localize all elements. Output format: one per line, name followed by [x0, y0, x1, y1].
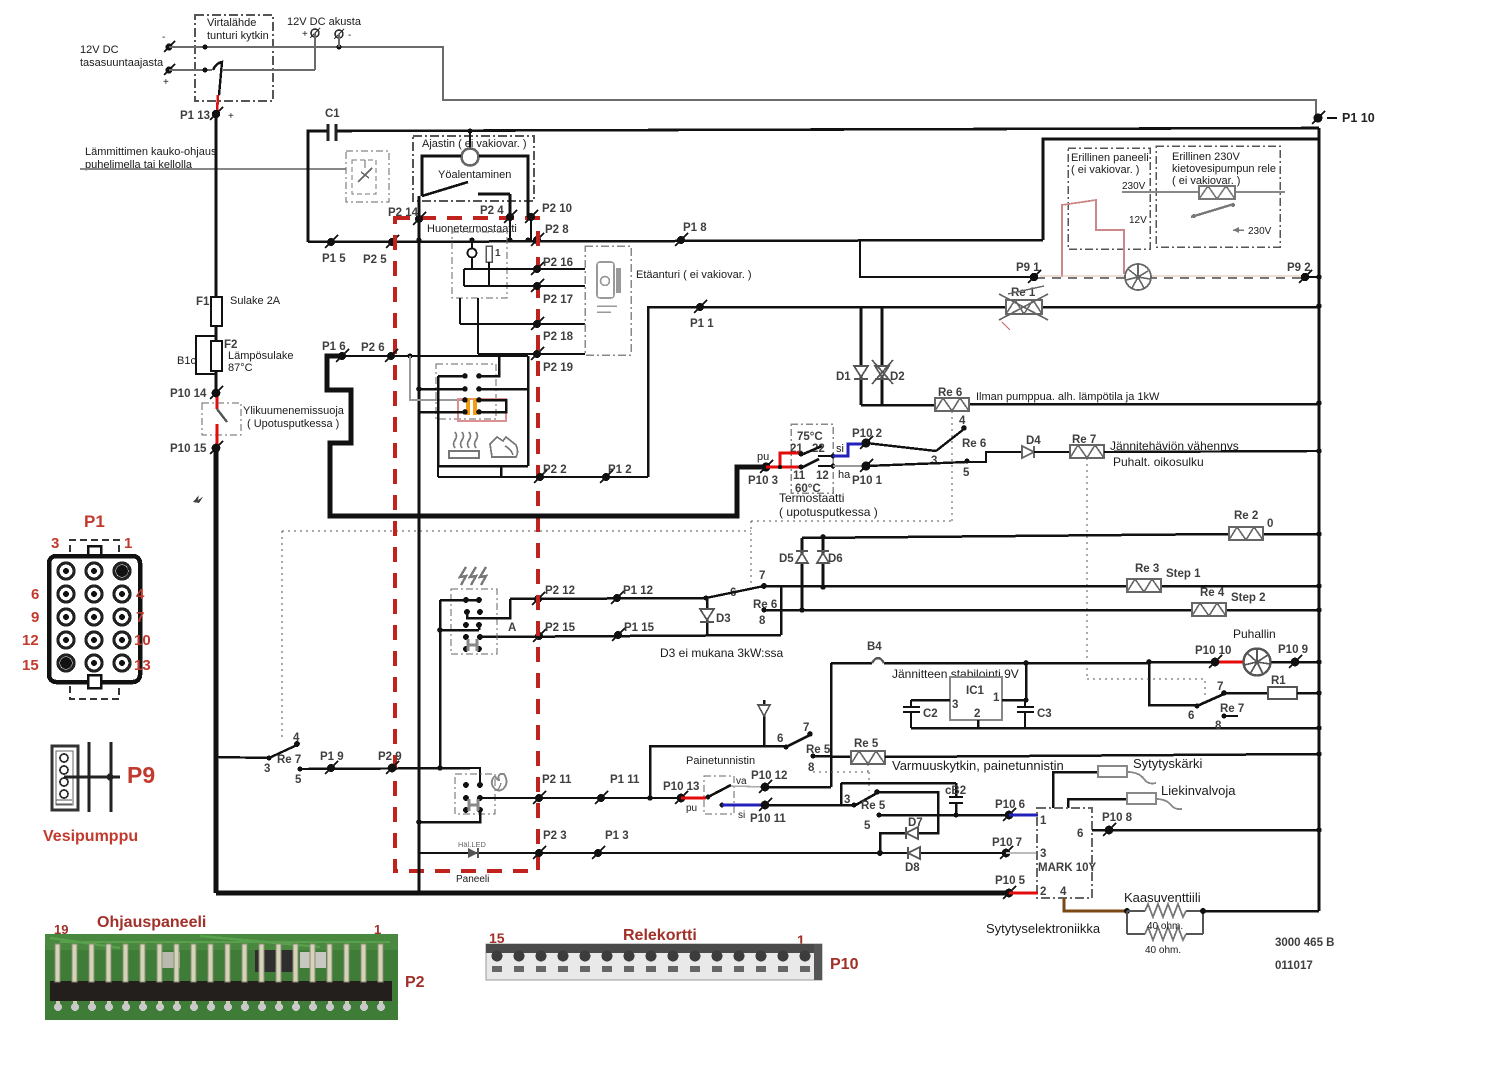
svg-text:3: 3	[51, 535, 59, 552]
svg-text:Sytytyselektroniikka: Sytytyselektroniikka	[986, 921, 1101, 936]
svg-text:C2: C2	[923, 708, 938, 720]
junction dot D6 top	[820, 534, 826, 540]
spark plug Sytytyskarki	[1053, 756, 1202, 808]
wire dotted Re6 coil link	[951, 411, 953, 521]
terminal P10 3	[748, 451, 778, 487]
svg-text:P2 12: P2 12	[545, 585, 575, 597]
junction bus R1	[1316, 690, 1322, 696]
svg-text:3: 3	[844, 794, 850, 806]
svg-text:-: -	[162, 32, 165, 43]
svg-text:C3: C3	[1037, 708, 1052, 720]
svg-text:P1 1: P1 1	[690, 318, 714, 330]
terminal P10 6	[995, 799, 1025, 821]
svg-text:10: 10	[134, 632, 151, 649]
svg-text:+: +	[163, 77, 169, 88]
svg-text:1: 1	[993, 692, 1000, 704]
svg-text:Step 2: Step 2	[1231, 592, 1266, 604]
switch Re 5 lower	[844, 789, 886, 832]
junction bus Re1	[1316, 303, 1322, 309]
svg-text:P9 2: P9 2	[1287, 262, 1311, 274]
wire thermostat internals	[460, 258, 537, 354]
wire Hal.LED row	[419, 852, 1006, 854]
terminal P10 1	[852, 459, 883, 487]
svg-text:6: 6	[777, 733, 783, 745]
svg-text:1: 1	[1040, 815, 1047, 827]
svg-text:D5: D5	[779, 553, 794, 565]
wire Puhallin row	[1149, 661, 1319, 664]
junction bus Re7	[1316, 448, 1322, 454]
svg-text:Paneeli: Paneeli	[456, 874, 489, 885]
terminal P10 13	[663, 781, 699, 814]
svg-text:P1 9: P1 9	[320, 751, 344, 763]
svg-text:P2 4: P2 4	[480, 205, 504, 217]
wire stabilizer bottom row	[911, 720, 1319, 728]
svg-text:Liekinvalvoja: Liekinvalvoja	[1161, 783, 1236, 798]
svg-text:P1 5: P1 5	[322, 253, 346, 265]
svg-text:B4: B4	[867, 641, 882, 653]
symbol H contact A	[468, 639, 477, 651]
svg-text:5: 5	[963, 467, 970, 479]
svg-text:D4: D4	[1026, 435, 1041, 447]
junction dot	[203, 45, 208, 50]
mark small arrow	[193, 495, 203, 503]
svg-text:P10 1: P10 1	[852, 475, 883, 487]
svg-text:15: 15	[22, 657, 39, 674]
connector P1 pins	[58, 563, 130, 671]
svg-text:B1c: B1c	[177, 355, 196, 367]
svg-text:Erillinen 230V: Erillinen 230V	[1172, 151, 1241, 163]
svg-text:P10 3: P10 3	[748, 475, 778, 487]
wire P2 2 stub	[437, 466, 439, 477]
wire P9 dashed link	[1036, 276, 1303, 278]
junction dot B2	[954, 813, 959, 818]
terminal P10 5	[995, 875, 1026, 899]
capacitor C2	[903, 700, 938, 728]
box Erillinen paneeli	[1068, 148, 1150, 249]
fuse F1	[196, 114, 281, 326]
contact dots switch A	[463, 597, 483, 652]
svg-text:P10 15: P10 15	[170, 443, 207, 455]
svg-text:P10 2: P10 2	[852, 428, 882, 440]
terminal P10 14	[170, 386, 223, 400]
svg-text:11: 11	[793, 470, 806, 482]
wire IC1 left	[911, 699, 950, 702]
wire P10 12 to B4 riser	[765, 663, 831, 787]
svg-text:Re 6: Re 6	[938, 387, 962, 399]
svg-text:P2 3: P2 3	[543, 830, 567, 842]
wire 1kW row	[861, 404, 1319, 405]
wire red fan	[1215, 661, 1245, 664]
wire C1 left leg	[308, 131, 327, 242]
svg-text:+: +	[228, 111, 234, 122]
svg-text:( upotusputkessa ): ( upotusputkessa )	[779, 505, 878, 519]
wire blue P10 6	[1009, 814, 1038, 817]
terminal P2 15	[533, 622, 576, 642]
svg-text:P2 9: P2 9	[378, 751, 402, 763]
label Termostaatti	[779, 491, 878, 519]
wire pump relay gray	[1122, 191, 1285, 193]
terminal akusta minus	[334, 29, 351, 41]
wire thick pu path	[327, 356, 764, 516]
wire D2 leg	[881, 307, 884, 405]
diode D3	[700, 598, 731, 635]
switch Re 7 panel	[264, 732, 303, 786]
svg-text:8: 8	[1215, 720, 1222, 732]
terminal P1 3	[592, 830, 629, 859]
icon kettle	[490, 437, 518, 457]
connector P1 body	[49, 556, 140, 682]
wire blue si2	[722, 804, 765, 807]
wire akusta plus drop	[314, 33, 316, 70]
wire Varmuuskytkin row	[885, 754, 1319, 757]
junction dot P2 6	[407, 353, 412, 358]
svg-text:Ilman pumppua. alh. lämpötila: Ilman pumppua. alh. lämpötila ja 1kW	[976, 391, 1160, 403]
svg-text:P1 8: P1 8	[683, 222, 707, 234]
switch pump relay	[1191, 203, 1235, 218]
switch power sense	[213, 62, 222, 95]
svg-text:D3 ei mukana 3kW:ssa: D3 ei mukana 3kW:ssa	[660, 646, 783, 660]
svg-text:-: -	[348, 30, 351, 41]
svg-text:7: 7	[803, 722, 809, 734]
box pressure sensor	[704, 776, 734, 814]
svg-text:P10 12: P10 12	[751, 770, 787, 782]
resistor R1	[1224, 675, 1319, 699]
label 3000 465 B	[1275, 937, 1334, 972]
svg-text:P10 7: P10 7	[992, 837, 1022, 849]
svg-text:P1 2: P1 2	[608, 464, 632, 476]
labels P1 pin numbers	[22, 535, 151, 674]
svg-text:Jännitehäviön vähennys: Jännitehäviön vähennys	[1110, 439, 1239, 453]
wire upper gray top rail	[169, 47, 1316, 115]
wire riser to Re5	[650, 746, 786, 798]
wire switch A inner jog	[467, 599, 510, 618]
wire burner left link	[419, 810, 480, 822]
junction bus 1kW	[1316, 400, 1322, 406]
svg-text:P1 15: P1 15	[624, 622, 655, 634]
svg-text:Termostaatti: Termostaatti	[779, 491, 844, 505]
svg-text:Lämmittimen kauko-ohjaus: Lämmittimen kauko-ohjaus	[85, 146, 217, 158]
svg-text:F1: F1	[196, 296, 210, 308]
svg-text:011017: 011017	[1275, 960, 1313, 972]
svg-text:P2 18: P2 18	[543, 331, 574, 343]
terminal P1 12	[611, 585, 653, 604]
svg-text:0: 0	[1267, 518, 1273, 530]
wire contact block right	[438, 356, 528, 477]
wire left long vertical	[418, 196, 421, 893]
diode D7 loop	[877, 792, 938, 856]
contact dots burner	[463, 782, 483, 813]
svg-text:IC1: IC1	[966, 685, 985, 697]
terminal P1 6	[322, 341, 349, 362]
terminal left lower	[163, 64, 175, 88]
terminal P2 11	[533, 774, 572, 804]
wire Step1 row	[764, 585, 1319, 588]
svg-text:( ei vakiovar. ): ( ei vakiovar. )	[1071, 164, 1139, 176]
junction dot	[337, 45, 342, 50]
svg-text:P2 10: P2 10	[542, 203, 572, 215]
relay coil Re 3	[1127, 563, 1201, 592]
svg-text:4: 4	[959, 415, 966, 427]
svg-text:Re 6: Re 6	[962, 438, 986, 450]
svg-text:Relekortti: Relekortti	[623, 927, 697, 944]
terminal P1 8	[675, 222, 707, 246]
svg-text:tunturi kytkin: tunturi kytkin	[207, 30, 269, 42]
wire P2 2 row	[438, 476, 648, 478]
svg-text:P2 17: P2 17	[543, 294, 573, 306]
svg-text:40 ohm.: 40 ohm.	[1147, 921, 1183, 932]
wire Step2 row	[764, 609, 1319, 612]
box switch A	[451, 589, 497, 654]
icon flame	[492, 774, 507, 791]
wire D4 to Re7	[1034, 451, 1070, 453]
svg-text:Re 2: Re 2	[1234, 510, 1258, 522]
junction bus fan	[1316, 659, 1322, 665]
wire P1 1 Re 1 row	[648, 307, 1319, 477]
wire contact block left	[419, 376, 465, 466]
terminal P2 19	[478, 347, 585, 374]
svg-text:6: 6	[1077, 828, 1083, 840]
connector P1 top bracket	[70, 540, 119, 552]
svg-text:8: 8	[759, 615, 766, 627]
svg-text:P10 11: P10 11	[750, 813, 786, 825]
svg-text:P9 1: P9 1	[1016, 262, 1040, 274]
svg-text:P10 13: P10 13	[663, 781, 699, 793]
svg-text:Ylikuumenemissuoja: Ylikuumenemissuoja	[243, 405, 345, 417]
terminal P1 2	[600, 464, 632, 483]
wire timer frame	[422, 156, 528, 217]
terminal P1 5	[322, 235, 346, 265]
diode D1	[836, 366, 868, 383]
svg-text:P10 10: P10 10	[1195, 645, 1231, 657]
wire dotted group boundary	[282, 521, 952, 741]
wire akusta minus drop	[338, 34, 340, 47]
terminal P1 15	[612, 622, 655, 641]
wire remote gray	[80, 168, 346, 170]
junction bus varmuus	[1316, 751, 1322, 757]
svg-text:P1 11: P1 11	[610, 774, 640, 786]
svg-text:va: va	[736, 776, 747, 787]
svg-text:Häl.LED: Häl.LED	[458, 840, 487, 849]
icon heating coils	[460, 567, 486, 585]
wire F2 to P10 14	[215, 371, 218, 393]
svg-text:7: 7	[136, 609, 144, 626]
svg-text:Ohjauspaneeli: Ohjauspaneeli	[97, 914, 206, 931]
svg-text:12V DC akusta: 12V DC akusta	[287, 16, 362, 28]
wire dotted Re7 to switch	[1087, 679, 1205, 697]
svg-text:75°C: 75°C	[797, 431, 823, 443]
svg-text:5: 5	[295, 774, 302, 786]
svg-text:P10 6: P10 6	[995, 799, 1025, 811]
wire va gray	[731, 786, 765, 787]
svg-text:Erillinen paneeli: Erillinen paneeli	[1071, 152, 1149, 164]
wire red thermostat feed	[766, 453, 800, 469]
svg-text:12V: 12V	[1129, 215, 1147, 226]
svg-text:kietovesipumpun rele: kietovesipumpun rele	[1172, 163, 1276, 175]
wire dotted Re7 coil link	[1086, 458, 1088, 679]
wire P2 15 row	[480, 635, 781, 637]
junction bus P10 8	[1316, 827, 1322, 833]
svg-text:Sulake 2A: Sulake 2A	[230, 295, 281, 307]
terminal P2 6	[361, 342, 398, 362]
svg-text:1: 1	[495, 248, 501, 259]
svg-text:Huonetermostaatti: Huonetermostaatti	[427, 223, 517, 235]
svg-text:Etäanturi ( ei vakiovar. ): Etäanturi ( ei vakiovar. )	[636, 269, 752, 281]
terminal P10 11	[750, 798, 786, 825]
wire pink panel	[1062, 200, 1124, 277]
terminal left upper	[162, 32, 175, 52]
terminal P10 8	[1102, 812, 1133, 836]
wire main top black rail	[337, 128, 1319, 131]
box Erillinen 230V kietovesipumpun rele	[1156, 146, 1280, 247]
junction dot row	[507, 237, 512, 242]
junction dot D5 bottom	[799, 607, 805, 613]
wire Re7 panel feed	[216, 757, 269, 758]
terminal P2 12	[532, 585, 575, 605]
svg-text:P2 11: P2 11	[542, 774, 572, 786]
svg-text:4: 4	[293, 732, 300, 744]
svg-text:3000 465 B: 3000 465 B	[1275, 937, 1334, 949]
svg-text:D6: D6	[828, 553, 843, 565]
box room thermostat	[452, 232, 507, 298]
wire IC1 right	[1002, 699, 1026, 702]
svg-text:3: 3	[952, 699, 958, 711]
ignition box MARK 10Y	[1037, 808, 1096, 898]
svg-text:6: 6	[1188, 710, 1194, 722]
svg-text:Yöalentaminen: Yöalentaminen	[438, 169, 511, 181]
switch thermostat 75C	[798, 446, 835, 458]
terminal P10 10	[1195, 645, 1231, 668]
terminal P2 8	[526, 224, 570, 246]
junction dot 700	[1024, 698, 1029, 703]
svg-text:P10 9: P10 9	[1278, 644, 1308, 656]
svg-text:Step 1: Step 1	[1166, 568, 1201, 580]
svg-text:7: 7	[759, 570, 765, 582]
wire D5 leg	[801, 538, 804, 611]
svg-text:9: 9	[31, 609, 39, 626]
svg-text:cB2: cB2	[945, 785, 966, 797]
svg-text:Vesipumppu: Vesipumppu	[43, 828, 138, 845]
terminal P2 17	[531, 279, 585, 306]
svg-text:si: si	[738, 810, 745, 821]
wire thick left vertical	[214, 450, 219, 893]
box burner switch	[455, 774, 495, 814]
terminal P10 12	[751, 770, 787, 793]
svg-text:P1 13: P1 13	[180, 110, 210, 122]
svg-text:P9: P9	[127, 762, 155, 788]
wire erillinen frame	[1043, 139, 1319, 240]
svg-text:P2 6: P2 6	[361, 342, 385, 354]
svg-text:Kaasuventtiili: Kaasuventtiili	[1124, 890, 1201, 905]
wire red P10 5	[1009, 892, 1038, 895]
fuse F2 thermal	[211, 326, 293, 374]
wire P10 2 to Re6 switch	[866, 443, 936, 451]
svg-text:Re 7: Re 7	[1072, 434, 1096, 446]
svg-text:Re 7: Re 7	[277, 754, 301, 766]
terminal P1 1	[690, 300, 714, 330]
terminal P10 7	[992, 837, 1022, 859]
terminal P1 9	[320, 751, 344, 774]
diode D6	[817, 551, 843, 565]
svg-text:D3: D3	[716, 613, 731, 625]
capacitor B2	[841, 783, 966, 815]
icon hotplate	[449, 432, 479, 458]
wire lower gray rail	[169, 68, 315, 73]
svg-text:Re 5: Re 5	[854, 738, 879, 750]
svg-text:6: 6	[31, 586, 39, 603]
terminal P2 16	[531, 257, 585, 275]
connector P1 bottom tab	[88, 675, 101, 688]
wire Re 2 row	[802, 534, 1319, 538]
terminal P9 1	[1016, 262, 1041, 283]
terminal P2 2	[534, 464, 567, 483]
wire P2 4 drop	[509, 217, 511, 240]
svg-text:D1: D1	[836, 371, 851, 383]
junction dot row	[416, 237, 421, 242]
wire gas valve to bus	[1203, 910, 1319, 913]
box Virtalahde tunturi kytkin	[195, 15, 273, 101]
switch pressure	[706, 785, 731, 807]
terminal P2 4	[480, 205, 517, 223]
svg-text:Lämpösulake: Lämpösulake	[228, 350, 293, 362]
svg-text:Re 4: Re 4	[1200, 587, 1225, 599]
terminal P1 11	[595, 774, 640, 804]
connector P1 bottom bracket	[70, 686, 119, 699]
svg-text:P2 16: P2 16	[543, 257, 573, 269]
svg-text:Sytytyskärki: Sytytyskärki	[1133, 756, 1202, 771]
svg-text:P2 5: P2 5	[363, 254, 387, 266]
svg-text:C1: C1	[325, 108, 340, 120]
svg-text:P2 8: P2 8	[545, 224, 569, 236]
svg-text:7: 7	[1217, 681, 1223, 693]
terminal P2 5	[363, 235, 399, 266]
relay coil Re 6	[935, 387, 969, 411]
svg-text:D7: D7	[908, 817, 923, 829]
svg-text:D2: D2	[890, 371, 905, 383]
switch night setback	[422, 182, 510, 217]
junction dot D6 bottom	[820, 584, 826, 590]
terminal P2 14	[388, 207, 426, 225]
svg-text:4: 4	[1060, 886, 1067, 898]
flame sensor Liekinvalvoja	[1068, 783, 1236, 809]
switch Re 6 step	[703, 570, 777, 627]
wire Re7 to bus	[1104, 451, 1319, 452]
box Ajastin	[413, 136, 534, 201]
svg-text:D8: D8	[905, 862, 920, 874]
box remote control	[346, 151, 389, 202]
wire P1 6 row	[342, 355, 528, 357]
label Jannitehavion vahennys	[1110, 439, 1239, 469]
symbol H contact burner	[469, 799, 478, 811]
wire P1 9 row	[300, 768, 480, 786]
svg-text:Varmuuskytkin, painetunnistin: Varmuuskytkin, painetunnistin	[892, 758, 1064, 773]
svg-text:Re 3: Re 3	[1135, 563, 1159, 575]
wire P2 12 row	[510, 598, 706, 599]
svg-text:P2 19: P2 19	[543, 362, 573, 374]
svg-text:Virtalähde: Virtalähde	[207, 17, 256, 29]
wire main row line P1 5 to frame	[308, 240, 1043, 242]
bracket B1c	[177, 336, 216, 374]
svg-text:P2 15: P2 15	[545, 622, 576, 634]
svg-text:P10: P10	[830, 956, 859, 973]
svg-text:5: 5	[864, 820, 871, 832]
svg-text:Puhalt. oikosulku: Puhalt. oikosulku	[1113, 455, 1204, 469]
motor fan Puhallin	[1244, 649, 1271, 676]
relay coil Re 7	[1070, 434, 1104, 458]
relay coil Re 5	[851, 738, 885, 764]
svg-text:P2 14: P2 14	[388, 207, 419, 219]
diode D4	[1022, 435, 1041, 458]
svg-text:13: 13	[134, 657, 151, 674]
